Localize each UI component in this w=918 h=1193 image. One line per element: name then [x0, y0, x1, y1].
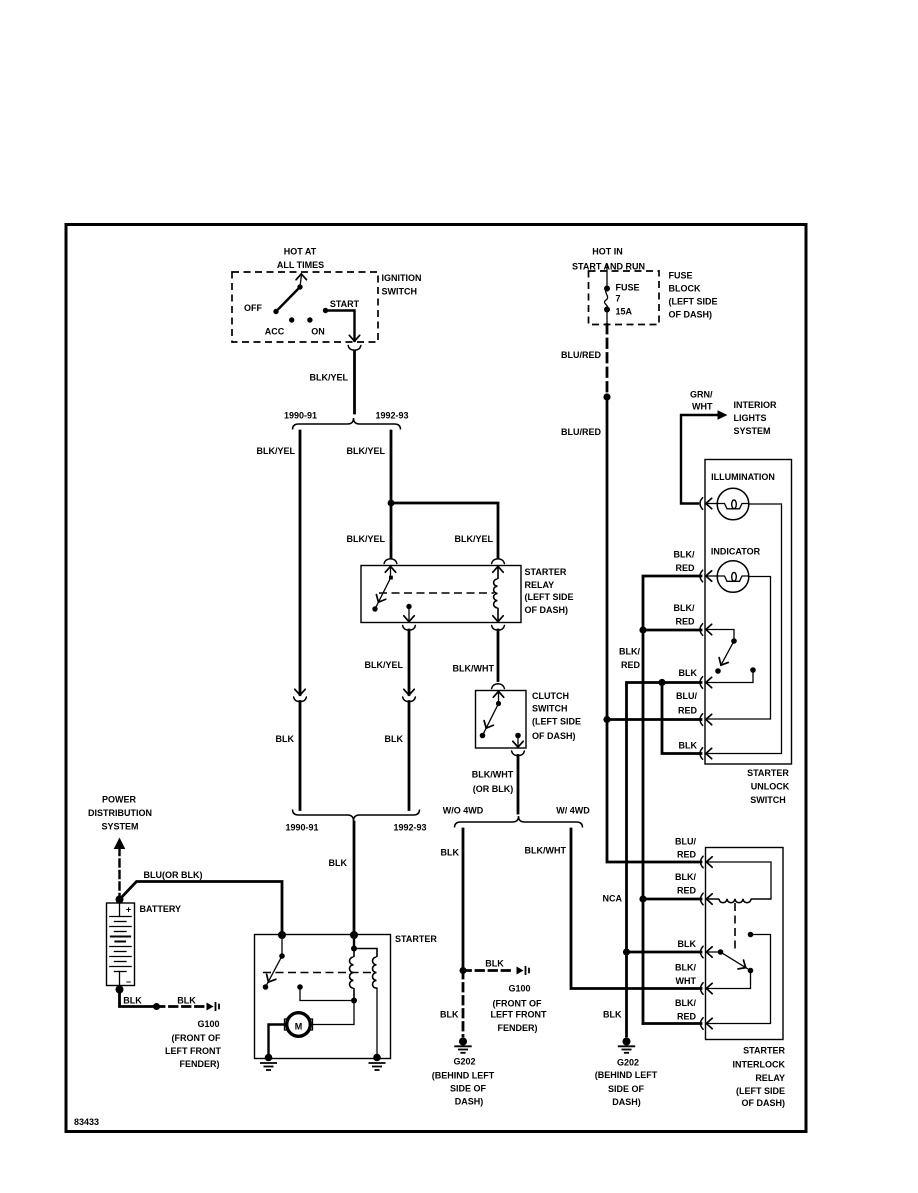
starter ground right — [373, 1054, 381, 1062]
svg-text:SYSTEM: SYSTEM — [101, 822, 138, 832]
wire BLK/RED unlock to interlock — [642, 630, 645, 1024]
svg-text:SWITCH: SWITCH — [532, 704, 568, 714]
outer border frame — [66, 225, 806, 1132]
unlock switch arm — [721, 641, 734, 665]
starter box — [255, 935, 391, 1059]
svg-text:LEFT FRONT: LEFT FRONT — [165, 1046, 221, 1056]
svg-text:GRN/: GRN/ — [690, 390, 713, 400]
svg-text:START: START — [330, 299, 360, 309]
svg-text:BLK: BLK — [276, 734, 295, 744]
connector into relay coil terminal — [492, 559, 505, 564]
ground G100 splice symbol — [517, 966, 530, 975]
svg-text:LIGHTS: LIGHTS — [734, 413, 767, 423]
indicator lamp — [706, 575, 718, 577]
svg-text:INDICATOR: INDICATOR — [711, 547, 761, 557]
wire to relay switch terminal — [390, 503, 393, 557]
svg-text:STARTER: STARTER — [743, 1046, 785, 1056]
svg-text:(LEFT SIDE: (LEFT SIDE — [532, 717, 581, 727]
wire BLK merge to starter — [353, 822, 356, 935]
ignition switch box — [232, 272, 378, 342]
svg-text:RELAY: RELAY — [525, 580, 555, 590]
connector unlock switch BLU/RED — [700, 714, 703, 726]
node BLK/RED — [639, 626, 646, 633]
svg-text:SWITCH: SWITCH — [750, 795, 786, 805]
node battery feed on starter — [278, 931, 286, 939]
svg-text:7: 7 — [616, 294, 621, 304]
svg-text:DASH): DASH) — [612, 1097, 641, 1107]
inline connector on relay output — [404, 689, 414, 695]
svg-text:START AND RUN: START AND RUN — [572, 262, 645, 272]
svg-text:OF DASH): OF DASH) — [669, 310, 713, 320]
wire BLU/RED solid — [606, 397, 609, 720]
starter ground left — [265, 1054, 273, 1062]
svg-text:BLK: BLK — [441, 848, 460, 858]
connector unlock switch BLK/RED — [700, 624, 703, 636]
svg-text:BLK/: BLK/ — [674, 603, 695, 613]
node BLK feed on starter — [350, 931, 358, 939]
wire BLK dashed to G202 — [462, 971, 465, 1037]
svg-text:−: − — [126, 977, 131, 987]
svg-text:1990-91: 1990-91 — [284, 411, 317, 421]
node BLK to interlock — [623, 948, 630, 955]
svg-text:G100: G100 — [508, 984, 530, 994]
svg-text:(LEFT SIDE: (LEFT SIDE — [525, 592, 574, 602]
arrow to interior lights system — [718, 410, 728, 419]
svg-text:BLK/: BLK/ — [674, 550, 695, 560]
svg-text:(LEFT SIDE: (LEFT SIDE — [736, 1086, 785, 1096]
svg-text:ACC: ACC — [265, 327, 285, 337]
connector indicator BLK/RED — [700, 570, 703, 582]
svg-text:DASH): DASH) — [455, 1097, 484, 1107]
ground G202 left — [454, 1038, 471, 1053]
ignition switch OFF contact — [273, 309, 278, 314]
svg-text:CLUTCH: CLUTCH — [532, 691, 569, 701]
svg-text:BLK/YEL: BLK/YEL — [346, 446, 385, 456]
svg-text:STARTER: STARTER — [395, 934, 437, 944]
svg-text:ILLUMINATION: ILLUMINATION — [711, 472, 775, 482]
connector above clutch switch — [492, 684, 505, 689]
svg-text:M: M — [295, 1022, 303, 1032]
wire BLU/RED down to interlock relay — [607, 720, 701, 863]
svg-text:BLU/: BLU/ — [676, 691, 697, 701]
wire dashed to power distribution — [118, 848, 120, 897]
battery positive node — [116, 896, 124, 904]
wire into fuse — [606, 265, 608, 288]
svg-text:FENDER): FENDER) — [180, 1059, 220, 1069]
svg-text:HOT IN: HOT IN — [592, 247, 623, 257]
starter plunger contact — [297, 984, 303, 990]
svg-text:BLK/WHT: BLK/WHT — [472, 770, 514, 780]
connector below clutch switch — [512, 751, 525, 756]
svg-text:FUSE: FUSE — [616, 283, 640, 293]
svg-text:BLU/RED: BLU/RED — [561, 427, 601, 437]
svg-text:BLK: BLK — [485, 959, 504, 969]
node NCA — [639, 895, 646, 902]
junction node — [603, 393, 610, 400]
wire 1990-91 branch left — [299, 431, 302, 695]
svg-text:INTERLOCK: INTERLOCK — [733, 1060, 786, 1070]
svg-text:(OR BLK): (OR BLK) — [473, 784, 514, 794]
arrow to power distribution system — [114, 838, 126, 850]
wire BLK/YEL ignition to split — [353, 351, 356, 413]
wire NCA to interlock coil — [643, 898, 701, 901]
svg-text:FUSE: FUSE — [669, 271, 693, 281]
relay coil — [493, 566, 503, 572]
svg-text:BLK/WHT: BLK/WHT — [525, 846, 567, 856]
connector below ignition switch — [349, 335, 359, 341]
wire BLK/RED junction to connector — [643, 629, 701, 632]
svg-text:(BEHIND LEFT: (BEHIND LEFT — [595, 1070, 658, 1080]
svg-text:WHT: WHT — [676, 976, 697, 986]
connector interlock BLK/RED bottom — [701, 1018, 704, 1030]
wire BLU/RED dashed from fuse — [606, 325, 609, 396]
svg-text:W/O 4WD: W/O 4WD — [443, 806, 484, 816]
svg-text:ALL TIMES: ALL TIMES — [277, 260, 324, 270]
svg-text:FENDER): FENDER) — [498, 1023, 538, 1033]
svg-text:SIDE OF: SIDE OF — [450, 1084, 487, 1094]
svg-text:+: + — [126, 905, 131, 915]
starter solenoid windings — [353, 935, 355, 949]
wire BLK to merge — [408, 702, 411, 810]
svg-text:DISTRIBUTION: DISTRIBUTION — [88, 808, 152, 818]
svg-text:(FRONT OF: (FRONT OF — [172, 1033, 221, 1043]
svg-text:BATTERY: BATTERY — [140, 904, 182, 914]
svg-text:INTERIOR: INTERIOR — [734, 400, 778, 410]
starter actuator dashed link — [263, 972, 375, 974]
wire BLU(OR BLK) battery to starter — [120, 882, 283, 936]
svg-text:STARTER: STARTER — [747, 768, 789, 778]
wire BLK junction to connector — [662, 681, 701, 684]
relay switch arm — [375, 578, 391, 610]
unlock switch pivot — [706, 630, 735, 641]
fuse block box — [589, 271, 660, 325]
splice node — [153, 1003, 160, 1010]
connector interlock BLK — [701, 946, 704, 958]
svg-text:UNLOCK: UNLOCK — [751, 782, 790, 792]
unlock switch contact left — [715, 668, 721, 674]
interlock switch common — [706, 951, 721, 953]
unlock switch contact right — [750, 667, 756, 673]
svg-text:OFF: OFF — [244, 303, 262, 313]
svg-text:SWITCH: SWITCH — [382, 287, 418, 297]
starter relay box — [361, 566, 521, 623]
wire BLK dashed to G100 — [463, 969, 514, 972]
svg-text:BLK/YEL: BLK/YEL — [364, 660, 403, 670]
svg-text:83433: 83433 — [74, 1117, 99, 1127]
wire BLK to interlock switch — [627, 951, 702, 954]
wire BLK/WHT relay coil to clutch switch — [497, 630, 500, 681]
svg-text:BLK: BLK — [329, 858, 348, 868]
svg-text:RED: RED — [675, 563, 695, 573]
wire BLU/RED to unlock switch connector — [607, 718, 701, 721]
svg-text:RED: RED — [621, 660, 641, 670]
svg-text:BLK/YEL: BLK/YEL — [309, 373, 348, 383]
wire motor to ground — [269, 1025, 285, 1058]
svg-text:POWER: POWER — [102, 795, 137, 805]
interlock upper contact — [748, 932, 754, 938]
connector interlock BLU/RED — [701, 856, 704, 868]
connector interlock BLK/WHT — [701, 983, 704, 995]
svg-text:BLK: BLK — [177, 996, 196, 1006]
relay actuator dashed link — [379, 592, 494, 594]
svg-text:BLU(OR BLK): BLU(OR BLK) — [144, 870, 203, 880]
clutch switch box — [476, 691, 527, 749]
wire BLK down to bottom connector — [662, 683, 701, 754]
year merge brace — [293, 810, 420, 822]
svg-text:BLK/WHT: BLK/WHT — [453, 664, 495, 674]
svg-text:WHT: WHT — [692, 402, 713, 412]
starter interlock relay box — [706, 848, 784, 1040]
svg-text:OF DASH): OF DASH) — [532, 731, 576, 741]
drivetrain split brace — [455, 816, 583, 828]
svg-text:LEFT FRONT: LEFT FRONT — [491, 1010, 547, 1020]
inline connector on left branch — [295, 689, 305, 695]
svg-text:STARTER: STARTER — [525, 567, 567, 577]
svg-text:1990-91: 1990-91 — [285, 823, 318, 833]
battery B1 — [107, 903, 135, 986]
svg-text:BLK/YEL: BLK/YEL — [346, 534, 385, 544]
svg-text:RELAY: RELAY — [755, 1073, 785, 1083]
svg-text:RED: RED — [678, 706, 698, 716]
ignition switch ACC contact — [289, 317, 294, 322]
svg-text:NCA: NCA — [603, 894, 623, 904]
svg-text:G202: G202 — [617, 1058, 639, 1068]
svg-text:(FRONT OF: (FRONT OF — [493, 999, 542, 1009]
ignition switch START contact — [323, 308, 328, 313]
svg-text:SIDE OF: SIDE OF — [608, 1084, 645, 1094]
svg-text:BLK/: BLK/ — [675, 998, 696, 1008]
wire BLK/YEL relay to merge — [408, 630, 411, 695]
clutch switch arm — [483, 704, 499, 736]
junction node — [460, 967, 467, 974]
svg-text:RED: RED — [675, 617, 695, 627]
ground G100 splice symbol — [207, 1002, 220, 1011]
clutch switch input terminal — [493, 691, 503, 697]
connector into relay left terminal — [384, 559, 397, 564]
junction node — [388, 500, 395, 507]
interlock actuator dashed link — [734, 903, 736, 953]
svg-text:G100: G100 — [197, 1019, 219, 1029]
svg-text:HOT AT: HOT AT — [284, 247, 317, 257]
svg-text:BLU/RED: BLU/RED — [561, 350, 601, 360]
svg-text:RED: RED — [677, 850, 697, 860]
connector below relay switch output — [403, 626, 416, 631]
wire W/O 4WD branch BLK — [462, 829, 465, 971]
wire BLK left branch lower — [299, 702, 302, 810]
node solenoid to motor — [351, 998, 357, 1004]
wire BLK to G202 — [625, 952, 628, 1036]
svg-text:BLK: BLK — [385, 734, 404, 744]
wire branch to relay coil — [391, 503, 498, 557]
wire BLK/WHT (OR BLK) — [517, 756, 520, 814]
ignition switch wiper arm — [276, 287, 300, 312]
svg-text:BLK/YEL: BLK/YEL — [454, 534, 493, 544]
svg-text:BLK/YEL: BLK/YEL — [256, 446, 295, 456]
node BLK — [658, 679, 665, 686]
wire BLK/RED into bottom connector — [643, 1022, 701, 1025]
connector illumination — [700, 498, 703, 510]
svg-text:RED: RED — [677, 886, 697, 896]
svg-text:BLK: BLK — [603, 1010, 622, 1020]
interlock relay coil — [706, 899, 771, 903]
connector unlock switch BLK — [700, 677, 703, 689]
svg-text:BLK: BLK — [679, 668, 698, 678]
svg-text:BLOCK: BLOCK — [669, 284, 701, 294]
svg-text:IGNITION: IGNITION — [382, 273, 422, 283]
svg-text:1992-93: 1992-93 — [393, 823, 426, 833]
node BLU/RED to unlock switch — [603, 716, 610, 723]
wire BLK dashed to G100 — [157, 1005, 205, 1008]
starter unlock switch box — [705, 460, 792, 765]
svg-text:BLU/: BLU/ — [675, 837, 696, 847]
svg-text:15A: 15A — [616, 307, 633, 317]
wire 1992-93 branch right — [390, 431, 393, 503]
connector unlock switch BLK bottom — [700, 748, 703, 760]
year split brace — [293, 418, 401, 430]
relay switch output contact — [406, 604, 411, 609]
relay switch terminal arrow — [385, 566, 395, 572]
svg-text:W/ 4WD: W/ 4WD — [556, 806, 590, 816]
svg-text:OF DASH): OF DASH) — [742, 1098, 786, 1108]
interlock switch arm — [721, 952, 748, 969]
wire BLK/RED indicator feed — [643, 576, 701, 628]
battery negative node — [116, 986, 124, 994]
starter motor M — [287, 1013, 311, 1037]
svg-text:SYSTEM: SYSTEM — [734, 426, 771, 436]
starter solenoid switch — [281, 935, 283, 956]
svg-text:(BEHIND LEFT: (BEHIND LEFT — [432, 1071, 495, 1081]
svg-text:BLK/: BLK/ — [675, 872, 696, 882]
fuse 7 15A — [604, 286, 610, 292]
ground G202 right — [618, 1038, 635, 1053]
svg-text:BLK/: BLK/ — [619, 647, 640, 657]
svg-text:BLK: BLK — [679, 741, 698, 751]
svg-text:OF DASH): OF DASH) — [525, 605, 569, 615]
svg-text:RED: RED — [677, 1012, 697, 1022]
ignition switch ON contact — [307, 317, 312, 322]
svg-text:ON: ON — [311, 327, 325, 337]
wire BLK from unlock to interlock and G202 — [627, 683, 663, 953]
wire GRN/WHT to interior lights — [681, 415, 717, 504]
svg-text:BLK/: BLK/ — [675, 963, 696, 973]
illumination lamp — [706, 503, 718, 505]
svg-text:BLK: BLK — [123, 996, 142, 1006]
connector below relay coil — [492, 626, 505, 631]
wire from START contact — [326, 311, 355, 341]
svg-text:G202: G202 — [453, 1057, 475, 1067]
wire BLK battery ground — [120, 990, 156, 1007]
svg-text:(LEFT SIDE: (LEFT SIDE — [669, 297, 718, 307]
svg-text:BLK: BLK — [440, 1010, 459, 1020]
svg-text:1992-93: 1992-93 — [375, 411, 408, 421]
connector interlock BLK/RED coil — [701, 893, 704, 905]
svg-text:BLK: BLK — [678, 939, 697, 949]
wire W/ 4WD branch BLK/WHT — [571, 829, 701, 989]
clutch switch output contact — [515, 733, 521, 739]
